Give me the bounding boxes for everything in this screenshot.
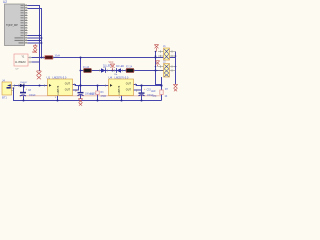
svg-text:U2: U2 [3, 0, 7, 4]
svg-text:1K: 1K [165, 96, 168, 98]
svg-text:OUT: OUT [65, 88, 71, 91]
svg-text:10uH: 10uH [55, 55, 61, 57]
svg-text:LED: LED [151, 91, 156, 93]
svg-text:470R: 470R [101, 96, 107, 98]
svg-text:OUT: OUT [126, 88, 132, 91]
svg-text:OUT: OUT [65, 82, 71, 85]
svg-text:D2 LED: D2 LED [116, 66, 124, 68]
svg-text:OUT: OUT [126, 82, 132, 85]
svg-text:BT1: BT1 [2, 95, 7, 99]
svg-text:LM2576: LM2576 [118, 85, 121, 95]
svg-text:11.0592M: 11.0592M [15, 61, 25, 64]
svg-text:CY: CY [16, 69, 20, 71]
svg-text:F2 2A: F2 2A [126, 65, 133, 68]
svg-text:TQFP_MP: TQFP_MP [6, 24, 18, 27]
svg-text:LM2576: LM2576 [57, 85, 60, 95]
svg-text:R?C: R?C [32, 52, 37, 54]
svg-text:100uF: 100uF [29, 95, 36, 97]
